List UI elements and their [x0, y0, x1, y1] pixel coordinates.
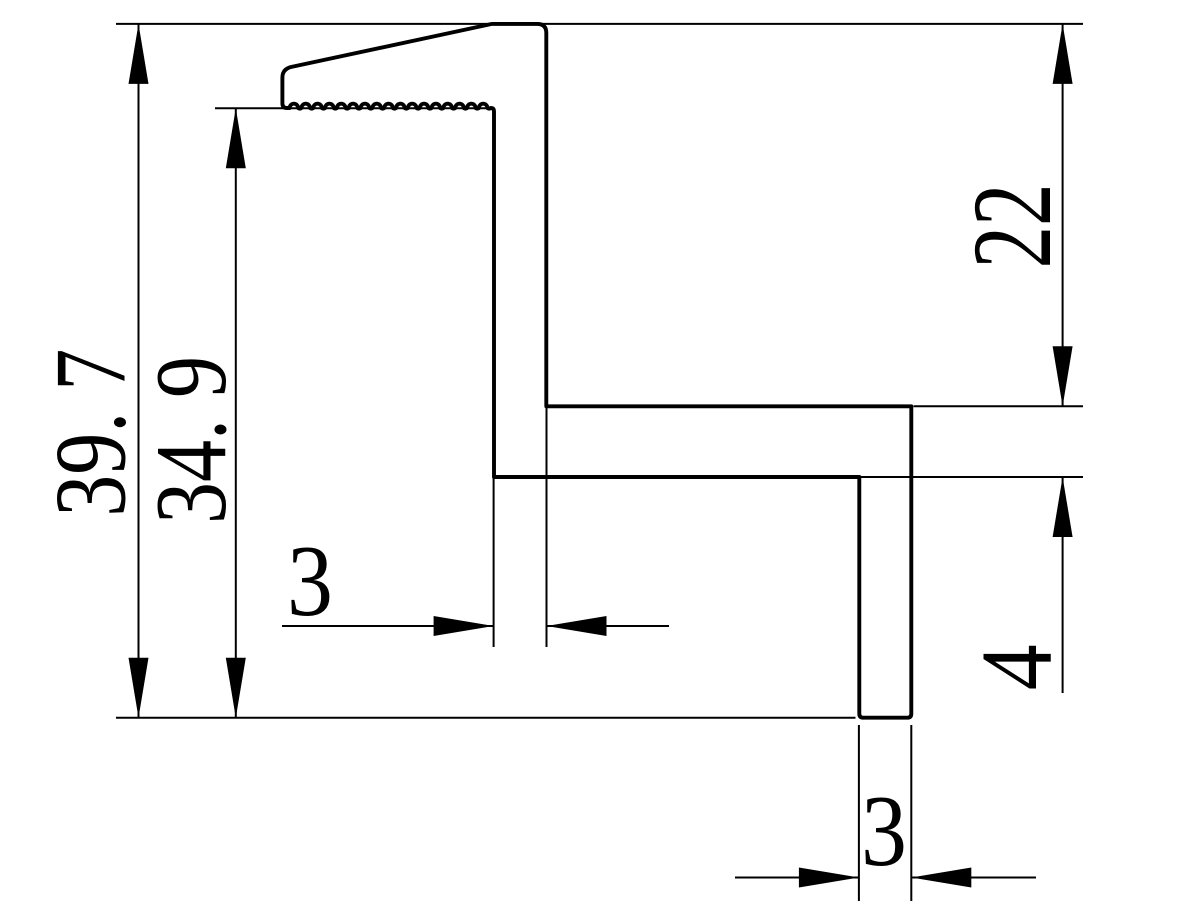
arrowhead 3 middle left (points right)	[434, 616, 494, 636]
dimension line: 22	[1062, 24, 1064, 406]
extension line: top (39.7 / 22 upper datum)	[116, 23, 1083, 25]
extension line: web bottom right (4 lower)	[861, 476, 1083, 478]
extension line: serration datum (34.9 upper)	[215, 107, 490, 109]
dimension text 34.9	[135, 356, 248, 524]
arrowhead 22 top	[1053, 24, 1073, 84]
dimension line: 3 middle left tail	[282, 625, 494, 627]
dimension line: 34.9	[235, 108, 237, 718]
svg-text:39. 7: 39. 7	[35, 349, 148, 517]
arrowhead 3 middle right (points left)	[547, 616, 607, 636]
extension line: web top right (22 lower / 4 upper)	[914, 405, 1084, 407]
dimension line: 3 middle right tail	[547, 625, 670, 627]
extension line: wall left (3 middle)	[493, 479, 495, 648]
extension line: foot right (3 bottom)	[910, 725, 912, 901]
dimension text 39.7	[35, 349, 148, 517]
arrowhead 39.7 top	[129, 24, 149, 84]
dimension line: 4 (tail below)	[1062, 477, 1064, 693]
svg-text:4: 4	[961, 644, 1074, 690]
svg-text:34. 9: 34. 9	[135, 356, 248, 524]
arrowhead 22 bottom	[1053, 346, 1073, 406]
extension line: wall right (3 middle)	[546, 408, 548, 647]
arrowhead 3 bottom right (points left)	[911, 868, 971, 888]
arrowhead 34.9 bottom	[226, 658, 246, 718]
dimension text 22	[950, 184, 1075, 269]
arrowhead 4 (points up)	[1053, 477, 1073, 537]
svg-text:22: 22	[950, 184, 1075, 269]
svg-text:3: 3	[287, 525, 333, 638]
arrowhead 34.9 top	[226, 108, 246, 168]
dimension line: 3 bottom right tail	[911, 877, 1036, 879]
extension line: bottom datum (39.7 / 34.9 lower)	[116, 717, 856, 719]
arrowhead 3 bottom left (points right)	[799, 868, 859, 888]
dimension line: 3 bottom left tail	[735, 877, 859, 879]
profile outline (Z-section end clamp with serrated flange)	[282, 24, 911, 718]
extension line: foot left (3 bottom)	[858, 725, 860, 901]
arrowhead 39.7 bottom	[129, 658, 149, 718]
dimension line: 39.7	[138, 24, 140, 718]
svg-text:3: 3	[861, 775, 907, 888]
dimension text 4	[961, 644, 1074, 690]
